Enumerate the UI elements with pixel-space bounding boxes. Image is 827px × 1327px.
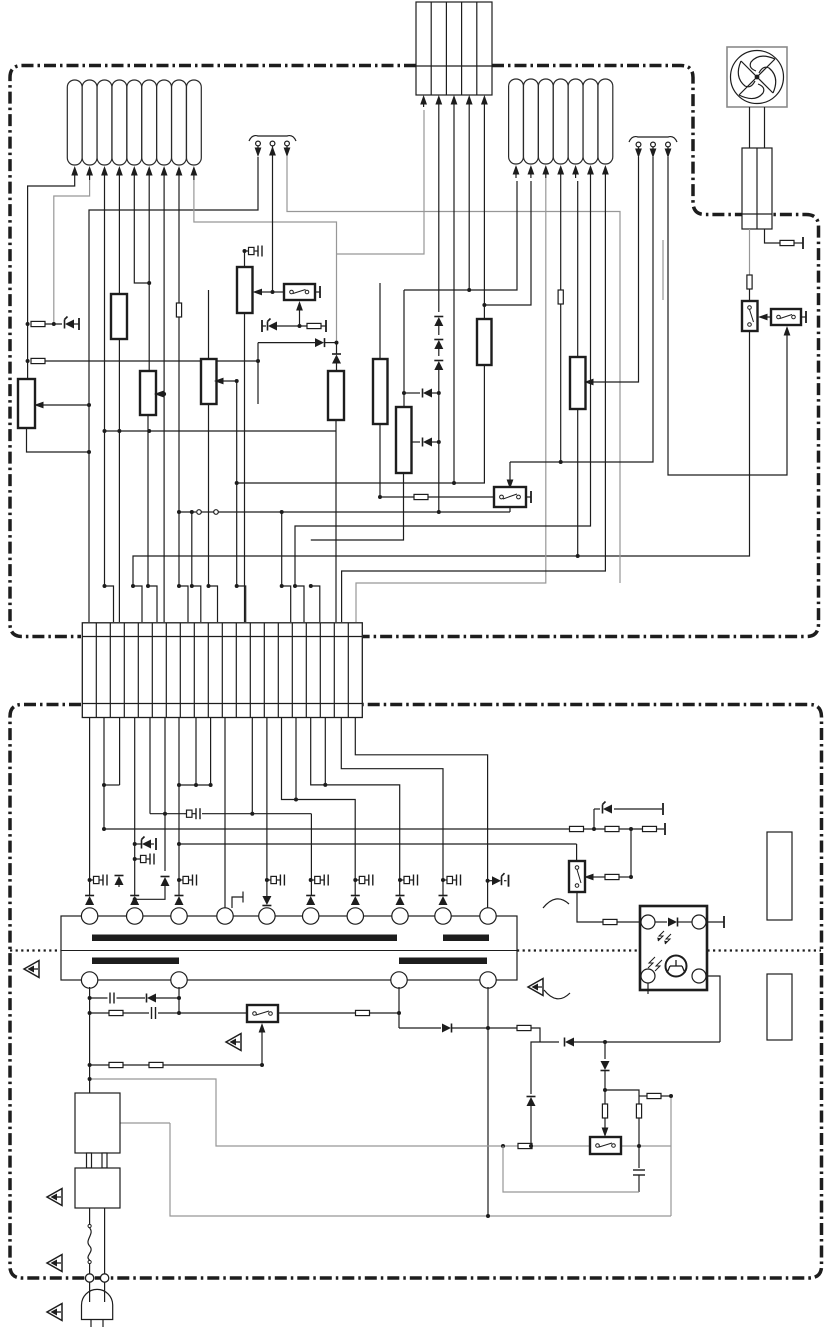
wire B7 bottom (379, 424, 381, 497)
elbow col 104.5 (105, 586, 114, 622)
fan legs (750, 107, 765, 148)
arrows into left pills (75, 168, 194, 180)
cap C-s3 (638, 1146, 640, 1168)
wire from 3pin-right pin3 to fan switch (668, 157, 787, 475)
diode D-t7 (351, 896, 360, 906)
block R1 (heatsink) (767, 832, 792, 920)
branch right to R-s7 (605, 1090, 639, 1104)
diode D-t2 (130, 896, 139, 906)
core line (61, 950, 517, 952)
diode row y326: ground bar (261, 320, 263, 332)
zener D-r1 (603, 802, 613, 814)
resistor R-f left of SW2 (380, 496, 414, 498)
wire col16 (324, 718, 326, 785)
IC B7 (373, 359, 388, 424)
wire terminal10-bottom down rail (487, 987, 489, 1216)
elbow col 148 (148, 586, 157, 622)
warning triangle F2 (47, 1189, 62, 1206)
cap C-t1 + diode (88, 878, 92, 882)
wire col4 to xfmr terminal 2 (134, 718, 136, 897)
resistor R-s5 (149, 1062, 163, 1067)
wire fan conn right pin to resistor (765, 229, 781, 243)
grey stub from EMI block (120, 1122, 170, 1124)
relay RY (vertical contact box) (742, 301, 758, 331)
ground bar (662, 803, 664, 815)
wire row y1042 (540, 1041, 559, 1043)
wire CN pin4 down (468, 107, 470, 290)
ground bar (155, 838, 157, 850)
diode D-e up (434, 317, 443, 327)
phototransistor inside PC1 (666, 956, 687, 977)
plug cord (90, 1320, 92, 1327)
diode D-f up (434, 340, 443, 350)
wire col2 (103, 718, 105, 830)
jumper J1 (197, 510, 202, 515)
junction row y785 (179, 784, 211, 786)
elbow col 236.7 (237, 586, 246, 622)
diode D-s2 (442, 1024, 452, 1033)
diode D-s1 (147, 994, 157, 1003)
wire pill1 down-left to B1 (28, 180, 75, 379)
arrow into B4 right (235, 379, 239, 383)
resistor R-s8 horizontal (639, 1095, 647, 1097)
wire pill3 straight down (104, 180, 106, 586)
resistor R-r3 (643, 826, 657, 831)
diode D-c right (315, 338, 325, 347)
wire col15 step to terminal 8 (311, 718, 400, 897)
arrow up into SWA bottom (261, 1026, 263, 1065)
pin arrows into CN bottom (420, 95, 488, 107)
wire row y1065 (90, 1064, 109, 1066)
fan connector (2-cell) (742, 148, 772, 229)
core gap arc lower (544, 990, 570, 999)
arrows into middle pills (516, 167, 605, 178)
diode D-i left row y442 (411, 441, 420, 443)
border pass-through circles (85, 1274, 93, 1282)
cap C-s1 (110, 993, 114, 1004)
wire mid-pill3 grey down (356, 178, 546, 622)
zener D-b pointing left (268, 319, 278, 331)
wire col18 step to terminal 10 (355, 718, 487, 909)
wire 3pin-left pin2 down to B5/SW1 node (272, 156, 274, 292)
wire elbow col 191.8 (190, 510, 194, 514)
junction row y813 (150, 814, 311, 896)
tbar right of switch (801, 316, 806, 318)
stub PC1 bottom-left (647, 983, 649, 994)
zener D-t10 + bar on terminal10 lead (486, 879, 490, 883)
diode D-t1 (85, 896, 94, 906)
wire F2 to fuse (89, 1208, 91, 1224)
block R2 (heatsink) (767, 974, 792, 1040)
wire CN pin5 down to B9 (483, 107, 485, 319)
wire col5 (149, 718, 151, 814)
diode D-t6 (306, 896, 315, 906)
diode D-t9 (439, 896, 448, 906)
grey wire from 3pin-left pin3 (287, 156, 620, 583)
wire row y431 (105, 430, 337, 432)
wire PC1 top-right to ground (706, 921, 724, 923)
arrow into RY2 right (589, 876, 592, 878)
wire col11 (251, 718, 253, 814)
elbow col 295 (295, 586, 304, 622)
resistor R-r5 (603, 919, 617, 924)
resistor R-fan2 (747, 275, 752, 289)
wire elbow-col 236.7 (236, 381, 238, 586)
wire from secondary rail into EMI block (89, 987, 91, 1093)
cap-gnd C-a (246, 246, 262, 257)
primary terminals (top row circles) (81, 908, 496, 924)
IC B2 (111, 294, 127, 339)
zener D-a (65, 317, 75, 329)
wire row y1028 (399, 1027, 441, 1029)
wire col8 (195, 718, 197, 786)
diode D-s4 chain col 531 (531, 1042, 540, 1094)
wire (277, 325, 307, 327)
diode D-s4 up (527, 1097, 536, 1107)
wire B10 top to mid-pill5 (577, 181, 579, 357)
wire B5 bottom (244, 313, 246, 622)
resistor R-s3 (517, 1025, 531, 1030)
wire mid-pill6 step left row y526 (295, 178, 591, 586)
switch SW1 (284, 284, 315, 300)
ground bar (664, 823, 666, 835)
warning triangle right of transformer (528, 979, 543, 996)
wire to node (325, 342, 337, 344)
wire pill5 jog (134, 180, 149, 283)
tbar (74, 323, 79, 325)
elbow col 208.5 (209, 586, 218, 622)
resistor R-r4 (592, 876, 605, 878)
elbow col 133 (grey relay net) (133, 586, 142, 622)
LED inside PC1 (655, 921, 667, 923)
tbar (321, 325, 326, 327)
warning triangle fuse (47, 1255, 62, 1272)
elbow col 191.8 (192, 586, 201, 622)
tbar right of SW1 (315, 291, 320, 293)
switch SWB (590, 1137, 621, 1154)
wire elbow col 281.7 (280, 510, 284, 514)
grey stub wire (662, 240, 664, 300)
wire row y1013 (90, 1012, 109, 1014)
grey wire pill9 to right (194, 180, 337, 343)
wire col17 step to terminal 9 (341, 718, 443, 897)
EMI filter block F1 (75, 1093, 120, 1153)
wire pill8 cont (178, 317, 180, 586)
arrow from pill7 wire into B3 right (162, 392, 166, 396)
diode D-g up (434, 361, 443, 371)
diode D-t8 (396, 896, 405, 906)
cap C-r1 on row y813 (184, 808, 200, 819)
resistor R-e (558, 290, 563, 304)
zener D-l1 (142, 837, 152, 849)
resistor R-s6 vertical (602, 1104, 607, 1118)
grey wire G4 up to CN pin1 (337, 110, 425, 254)
arrow into B10 right from 3pin-right pin1 (590, 157, 639, 382)
resistor R-s4 (109, 1062, 123, 1067)
resistor R-r1 (570, 826, 584, 831)
diode D-t5 (down) (262, 896, 271, 906)
arrow from switch into relay (762, 316, 771, 318)
core probe mark above terminal 4 (232, 892, 243, 909)
wire row y290 to mid-pill1 (404, 181, 517, 290)
grey wire fan conn left pin down (749, 229, 751, 275)
wire B4 feed top (208, 290, 210, 359)
secondary winding bar 2 (399, 958, 487, 965)
resistor R-s9 on rail (518, 1143, 532, 1148)
aux winding bar (443, 935, 489, 942)
wire pill8 down (178, 180, 180, 303)
switch SW2 (494, 487, 526, 507)
arrow up into SW1 bottom (299, 303, 301, 326)
wire col7 to xfmr terminal 3 (178, 718, 180, 897)
diode D-h left on B8 top branch (404, 392, 420, 394)
resistor R-d (307, 323, 321, 328)
EMI filter block F2 (75, 1168, 120, 1208)
wire relay bottom rail to mid connector (133, 331, 750, 586)
diode D-s3 (565, 1038, 575, 1047)
wire B1 bottom elbow (27, 428, 90, 452)
cap C-t8 (398, 878, 402, 882)
wire B5 top to cap (244, 251, 246, 267)
cap C-t6 (309, 878, 313, 882)
resistor R-b (31, 358, 45, 363)
wire node to SW1 left (273, 291, 285, 293)
wire SW2 bottom to row (509, 507, 511, 512)
resistor R-c on pill8 wire (176, 303, 181, 317)
wire + ground tbar (794, 242, 803, 244)
wire col6 (164, 718, 166, 872)
secondary winding bar 1 (92, 958, 179, 965)
wire vert x404 from y290 row to B8 (403, 290, 405, 407)
node row2 (26, 359, 30, 363)
resistor R-s7 vertical (636, 1104, 641, 1118)
IC B10 (570, 357, 586, 409)
wire col9 (210, 718, 212, 786)
grey return loop (503, 1146, 639, 1192)
wire B9 bottom stepping left into connector (237, 365, 485, 483)
junction link cols 2-3 (104, 784, 120, 786)
elbow col 281.7 (282, 586, 291, 622)
switch S-fan (771, 309, 801, 325)
LED emission arrows (648, 931, 671, 971)
core gap arc upper (543, 899, 569, 908)
elbow col 179 (179, 586, 188, 622)
wire row y305 to mid-pill2 (484, 181, 531, 305)
neutral wire (104, 1208, 106, 1274)
resistor R-r2 (605, 826, 619, 831)
wire into relay (749, 289, 751, 301)
wire col3 (119, 718, 121, 786)
diode D-s5 down on col 605 (604, 1042, 606, 1059)
wire CN pin3 down (453, 107, 455, 483)
wire B3 bottom to connector elbow (147, 415, 149, 586)
grey net right vertical (670, 1096, 672, 1216)
resistor R-s2 (356, 1010, 370, 1015)
wire 3pin-right pin2 row y462 (510, 157, 653, 462)
wire col6 tail to col4 (135, 886, 165, 899)
wire into B6 (336, 364, 338, 372)
cap C-t9 (441, 878, 445, 882)
arrow down into SW2 (509, 462, 511, 484)
wire B6 bottom (335, 420, 337, 622)
diode D-l2 on col6 (161, 877, 170, 887)
wire y342.6 row (258, 342, 315, 344)
wire row y512 with jumper link (179, 511, 196, 513)
wire (45, 323, 62, 325)
wire col14 (295, 718, 297, 800)
resistor R-s1 (109, 1010, 123, 1015)
wire row y998 (90, 997, 108, 999)
warning triangle near SWA (226, 1034, 241, 1051)
IC B5 (237, 267, 253, 313)
wire B10 bottom joining rail (577, 409, 579, 556)
cap C-s2 (152, 1007, 156, 1019)
wire terminal2-bottom down (178, 987, 180, 1013)
resistor R-a (31, 321, 45, 326)
wire CN pin2 down with diode chain (438, 107, 440, 312)
fuse (wavy) (88, 1224, 91, 1227)
cap C-l1 below (135, 858, 138, 860)
cap C-t5 (265, 878, 269, 882)
resistor R-fan1 (780, 240, 794, 245)
wire col13 step to terminal 7 (282, 718, 356, 897)
warning triangle plug (47, 1304, 62, 1321)
secondary terminals (bottom row circles) (81, 972, 496, 988)
wire long row y361 (45, 360, 258, 362)
border top-right run (363, 66, 819, 637)
tbar SW2 (526, 496, 531, 498)
plug pins (89, 1283, 91, 1303)
isolation dotted line right of transformer (517, 949, 821, 951)
arrow into B1 right side (41, 404, 89, 406)
grey wire pill2 (54, 180, 90, 324)
IC B3 (140, 371, 156, 415)
wire mid-pill7 step left row y571 (342, 178, 606, 622)
wire B8 bottom step left (311, 473, 404, 540)
node (52, 322, 56, 326)
warning triangle left edge (24, 961, 39, 978)
switch SWA (247, 1005, 278, 1022)
wire PC1 bottom-right down (706, 976, 720, 1042)
wire mid-pill4 down (560, 178, 562, 290)
wire RY2 bottom to opto (577, 892, 603, 922)
grey rail y1146 (from EMI filter) (90, 1079, 671, 1146)
IC B9 (477, 319, 492, 365)
IC B6 (328, 371, 344, 420)
diode D-t3 (175, 896, 184, 906)
IC B1 (18, 379, 35, 428)
primary winding bar (92, 935, 397, 942)
IC B8 (396, 407, 412, 473)
AC plug (82, 1289, 113, 1319)
wire col1 to xfmr terminal 1 (89, 718, 91, 897)
node R/zener row (26, 322, 30, 326)
arrow into B5 right side (258, 291, 273, 293)
border top-left run (10, 66, 416, 637)
diode D-d up (336, 343, 338, 354)
wire pill7 down (163, 180, 165, 622)
IC B4 (201, 359, 217, 404)
wire B4 bottom (208, 404, 210, 586)
wire terminal3-bottom down (398, 987, 400, 1028)
grey rail y1216 (170, 1123, 671, 1216)
connector stubs (87, 1153, 92, 1168)
wire B7 top (379, 283, 381, 359)
wire 3pin-left pin1 long left rail (89, 157, 258, 622)
wire pill6 down into B3 (148, 180, 150, 371)
wire pill4 down through B2 (118, 180, 120, 294)
wire col10 to xfmr terminal 4 (224, 718, 226, 909)
wire corner x258 (257, 343, 259, 404)
elbow col 310.8 (311, 586, 320, 622)
cap C-t3 (177, 878, 181, 882)
wire col12 to xfmr terminal 5 (266, 718, 268, 897)
cap C-t7 (353, 878, 357, 882)
